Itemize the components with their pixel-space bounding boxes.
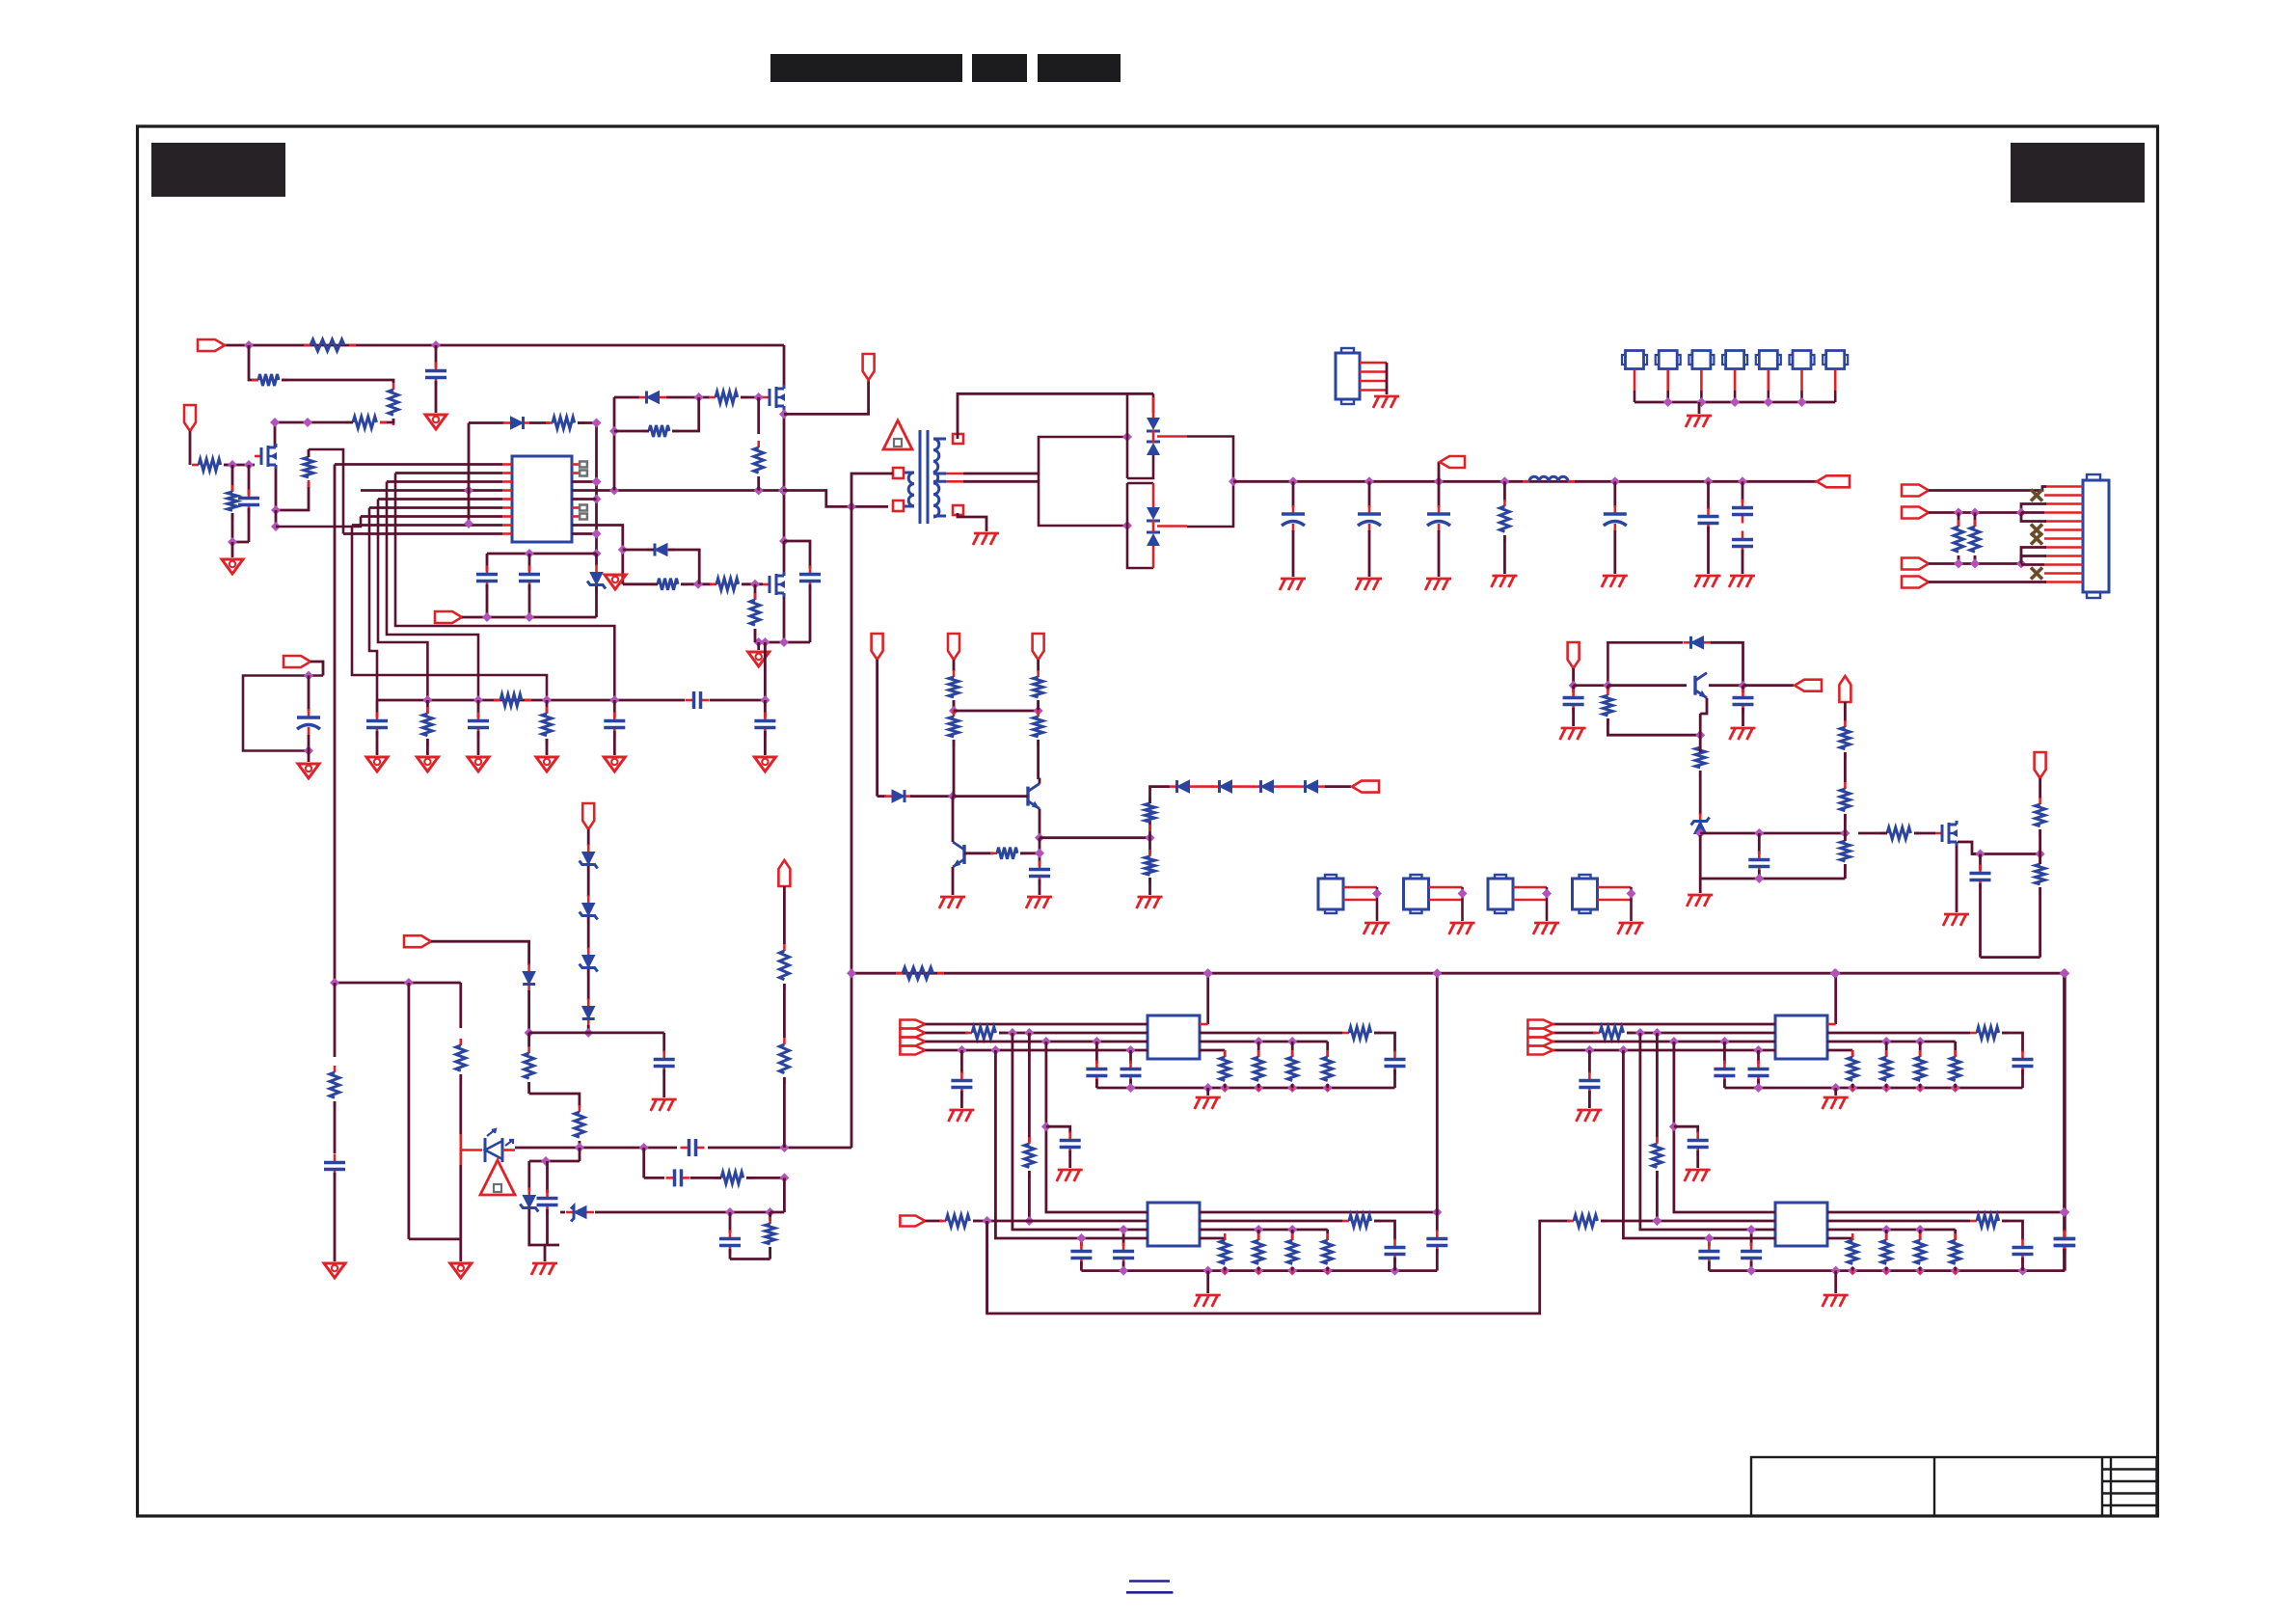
junction xyxy=(693,580,703,589)
chassis ground beads xyxy=(1686,416,1712,427)
junction xyxy=(1652,1216,1661,1226)
capacitor C305 xyxy=(1698,508,1719,532)
footer mark 2 xyxy=(1126,1591,1174,1594)
wire C331 drop xyxy=(662,1033,665,1052)
connector arrow D1 xyxy=(404,935,431,947)
wire cap row top xyxy=(487,553,597,555)
junction xyxy=(754,392,764,402)
wire to D301 xyxy=(878,795,886,798)
redacted title bar 3 xyxy=(1038,54,1121,82)
junction xyxy=(2016,508,2026,518)
wire R322-R323 xyxy=(1844,752,1847,782)
wire Q310 collector xyxy=(1709,684,1743,687)
capacitor C301 xyxy=(1282,505,1305,532)
warning triangle 2 xyxy=(480,1160,515,1195)
wire rp8 to gate chain xyxy=(572,526,623,584)
wire bridge upper red leg xyxy=(1152,397,1155,418)
wire Q310 out xyxy=(1700,698,1707,714)
wire A loop left xyxy=(986,1221,988,1313)
wire to ground xyxy=(231,542,234,557)
resistor R322 xyxy=(1840,720,1850,759)
junction xyxy=(1881,1037,1891,1046)
wire R326 to node xyxy=(2039,829,2041,854)
wire R308 below xyxy=(1148,838,1151,854)
wire lower row drop xyxy=(642,1148,645,1177)
wire rp3 xyxy=(572,480,597,483)
junction xyxy=(1739,681,1748,690)
junction xyxy=(228,537,237,547)
wire CB bank3 bot xyxy=(1919,1267,1922,1271)
wire C320 gnd xyxy=(1572,708,1575,726)
junction xyxy=(1951,1266,1960,1276)
wire C bank4 top xyxy=(1954,1042,1957,1057)
resistor R_Cc2 xyxy=(1881,1233,1891,1274)
junction xyxy=(464,519,473,528)
resistor R327 xyxy=(2036,857,2045,894)
wire bridge left box xyxy=(1039,437,1127,526)
wire C209 down xyxy=(308,735,311,751)
wire T1 primary top xyxy=(851,474,893,506)
wire A tap1 long xyxy=(995,1050,1148,1238)
wire fork pin5 xyxy=(2021,513,2046,522)
resistor R106 xyxy=(228,485,237,520)
connector arrow B1 xyxy=(872,634,883,660)
connector arrow C2 xyxy=(1839,676,1850,702)
junction xyxy=(957,1045,966,1055)
wire C out1 up xyxy=(1834,973,1837,1024)
wire A bank1 top xyxy=(1224,1050,1227,1057)
wire C tap3 xyxy=(1656,1033,1659,1142)
wire A bank4 bot xyxy=(1326,1084,1329,1088)
junction xyxy=(271,522,281,531)
wire C out3 xyxy=(1827,1041,1956,1043)
resistor R301 xyxy=(1499,500,1509,542)
wire D302-D303 xyxy=(1197,785,1213,788)
junction xyxy=(303,418,312,427)
wire D202 to R202 xyxy=(666,396,710,399)
wire R332 down xyxy=(527,1082,530,1094)
resistor R_Cb2 xyxy=(1881,1050,1891,1091)
wire arrow to node xyxy=(311,662,323,676)
wire R105 to Q102 gate xyxy=(224,464,255,467)
wire C bank3 top xyxy=(1919,1042,1922,1057)
wire C cap4 drop xyxy=(1757,1050,1760,1064)
resistor R103 xyxy=(389,383,398,425)
chassis ground C320 xyxy=(1560,728,1586,740)
no-connect U101 pin B xyxy=(580,471,587,476)
capacitor C_C5 xyxy=(2012,1051,2034,1075)
wire R208 gnd xyxy=(426,739,429,755)
wire CB gnd stub xyxy=(1834,1271,1837,1293)
wire C205 drop xyxy=(376,700,379,717)
resistor R_Cb4 xyxy=(1951,1050,1960,1091)
wire A bank2 bot xyxy=(1257,1084,1260,1088)
wire rp5 xyxy=(572,498,597,501)
wire AB bank2 top xyxy=(1257,1230,1260,1240)
junction xyxy=(1432,1207,1442,1217)
junction xyxy=(779,637,789,647)
capacitor C310 xyxy=(1029,861,1050,885)
junction xyxy=(1254,1266,1263,1276)
wire A vert below xyxy=(1436,1212,1439,1232)
wire AB out4 xyxy=(1200,1237,1225,1240)
junction xyxy=(1754,1045,1764,1055)
resistor R320 xyxy=(1603,689,1612,725)
resistor R307 xyxy=(1146,797,1155,831)
chassis ground U_C1 xyxy=(1823,1097,1849,1109)
wire C205 gnd xyxy=(376,731,379,755)
junction xyxy=(609,426,619,436)
wire C_A5 down xyxy=(1393,1069,1396,1088)
wire C322 down xyxy=(1758,870,1761,879)
chassis ground R308 xyxy=(1137,897,1163,908)
wire pair bottoms xyxy=(529,1209,559,1261)
chassis ground Q311 xyxy=(1943,914,1969,926)
wire fan pin5 route xyxy=(378,500,427,701)
wire U101 pin 3 xyxy=(502,480,512,483)
resistor R205 xyxy=(651,579,688,590)
junction xyxy=(766,1207,775,1217)
capacitor C102 xyxy=(238,490,259,514)
wire C330 gnd xyxy=(334,1173,337,1261)
wire A bank2 top xyxy=(1257,1042,1260,1057)
wire CB bank2 bot xyxy=(1885,1267,1888,1271)
capacitor C203 xyxy=(519,566,540,590)
junction xyxy=(1203,1083,1213,1093)
wire AB bottom rail xyxy=(1081,1269,1437,1272)
wire C306/C307 stack drop xyxy=(1742,481,1744,502)
wire rail gnd stub xyxy=(1699,879,1702,893)
junction xyxy=(990,1045,1000,1055)
wire to D201 xyxy=(469,421,504,424)
resistor R_C4 xyxy=(1567,1215,1607,1227)
junction xyxy=(1915,1083,1925,1093)
wire R327 down xyxy=(2039,887,2041,958)
wire J1 pin 9 red lead xyxy=(2044,555,2083,557)
wire C207 gnd xyxy=(613,731,616,755)
junction xyxy=(779,486,789,496)
no-connect X pin6 xyxy=(2031,525,2042,536)
junction xyxy=(1610,476,1620,486)
wire C_A7 down xyxy=(1122,1261,1125,1271)
wire C cap3 drop xyxy=(1723,1042,1726,1064)
capacitor C207 xyxy=(604,713,625,737)
resistor R321 xyxy=(1695,741,1705,777)
resistor R303 xyxy=(949,710,959,746)
junction xyxy=(1034,706,1043,716)
wire C203 down xyxy=(528,584,531,617)
capacitor C307 xyxy=(1732,531,1753,555)
wire ZD330 top xyxy=(527,1161,530,1191)
junction xyxy=(228,460,237,470)
capacitor C209 xyxy=(297,709,320,736)
capacitor C306 xyxy=(1732,500,1753,524)
resistor R210 xyxy=(542,707,552,745)
driver IC U_C1 xyxy=(1775,1015,1827,1059)
wire x637 vertical xyxy=(613,397,616,491)
redacted label top-right xyxy=(2011,143,2145,203)
resistor R325 xyxy=(1880,827,1921,839)
wire C out2 xyxy=(1827,1032,1970,1035)
wire CB bank1 bot xyxy=(1851,1267,1854,1271)
wire A L2 seg xyxy=(925,1032,968,1035)
wire C321 gnd xyxy=(1742,708,1744,726)
junction xyxy=(244,340,254,350)
wire arrow P4 to J1 pin12 xyxy=(1929,581,2046,583)
wire R206 to gate xyxy=(742,582,763,585)
footer mark xyxy=(1129,1580,1170,1583)
warning triangle 1 xyxy=(883,420,912,449)
junction xyxy=(1970,508,1980,518)
wire arrow stub up xyxy=(1438,462,1441,481)
wire A C2 branch xyxy=(1046,1126,1070,1133)
wire FB14 pins xyxy=(1598,886,1632,889)
junction xyxy=(1915,1225,1925,1234)
wire C tap1 long xyxy=(1623,1050,1775,1238)
junction xyxy=(1915,1266,1925,1276)
junction xyxy=(1323,1266,1333,1276)
wire Q102 source down xyxy=(275,469,278,510)
junction xyxy=(1603,681,1612,690)
junction xyxy=(1323,1083,1333,1093)
wire J1 pin 8 red lead xyxy=(2044,546,2083,549)
wire Q310 base xyxy=(1607,684,1687,687)
wire join xyxy=(232,541,249,544)
wire D204 output red xyxy=(1157,435,1187,438)
ground GND2 xyxy=(222,559,243,574)
wire B1 down xyxy=(876,660,878,797)
wire R207 below gate xyxy=(754,584,757,600)
junction xyxy=(1738,476,1747,486)
junction xyxy=(1122,432,1132,442)
junction xyxy=(754,637,764,647)
junction xyxy=(575,1143,584,1152)
transistor Q301 xyxy=(1028,784,1040,809)
wire R304 to tie xyxy=(1037,700,1040,711)
wire A out3 xyxy=(1200,1041,1328,1043)
wire R106 to gnd node xyxy=(231,513,234,542)
wire C_C7 down xyxy=(1750,1261,1753,1271)
connector arrow P2 xyxy=(1902,507,1929,519)
junction xyxy=(847,501,856,511)
chassis ground FB11 xyxy=(1364,923,1390,934)
ground GND4 xyxy=(605,575,626,589)
wire A L1 xyxy=(925,1023,1148,1026)
wire fork pin3 xyxy=(2021,504,2046,513)
wire C2 down xyxy=(1844,702,1847,721)
junction xyxy=(725,1207,735,1217)
resistor R326 xyxy=(2036,798,2045,836)
wire U101 right pin 7 NC xyxy=(572,515,580,518)
wire R401 down xyxy=(1958,555,1960,564)
junction xyxy=(583,1028,593,1038)
wire J1 pin 12 red lead xyxy=(2044,581,2083,583)
junction xyxy=(1220,1266,1229,1276)
ground GND9 xyxy=(604,757,625,771)
wire J1 pin 11 red lead xyxy=(2044,572,2083,575)
transistor Q202 MOSFET lower xyxy=(763,572,785,597)
wire CB out2 xyxy=(1827,1220,1970,1223)
ground GND5 xyxy=(366,757,388,771)
wire CB cap drop1 xyxy=(1708,1238,1711,1246)
junction xyxy=(1881,1225,1891,1234)
junction xyxy=(592,549,602,558)
wire C_A8 down xyxy=(1393,1258,1396,1271)
resistor R203 xyxy=(642,425,679,437)
wire CB out3 xyxy=(1827,1229,1956,1232)
capacitor C332 series xyxy=(681,1139,705,1156)
resistor R_Cb3 xyxy=(1915,1050,1925,1091)
junction xyxy=(592,477,602,487)
wire C334 top xyxy=(546,1161,549,1193)
junction xyxy=(592,495,602,504)
diode D201 xyxy=(503,417,531,429)
diode D303 xyxy=(1212,780,1240,793)
chassis ground C306 xyxy=(1729,576,1755,587)
wire C L2 seg xyxy=(1553,1032,1596,1035)
wire A out2 xyxy=(1200,1032,1342,1035)
transistor Q310 xyxy=(1695,673,1707,698)
chassis ground U_C2 xyxy=(1823,1295,1849,1307)
wire node to R327 xyxy=(2039,854,2041,865)
wire to Q102 drain xyxy=(275,422,353,447)
wire C bank1 bot xyxy=(1851,1084,1854,1088)
wire C302 gnd xyxy=(1368,530,1371,577)
wire x424 drop xyxy=(407,983,410,1239)
junction xyxy=(1970,559,1980,569)
chassis ground T1 xyxy=(973,533,999,545)
connector arrow VREG xyxy=(1795,680,1822,691)
connector arrow INA1 xyxy=(900,1020,925,1029)
junction xyxy=(1288,476,1298,486)
wire U101 pin 6 xyxy=(502,506,512,509)
diode D310 xyxy=(1684,636,1712,649)
ground GND1 xyxy=(425,415,446,429)
wire d down xyxy=(587,1025,590,1033)
junction xyxy=(592,529,602,539)
capacitor C_A2 xyxy=(1060,1132,1081,1156)
junction xyxy=(1618,1045,1628,1055)
wire C206 gnd xyxy=(477,731,480,755)
wire C bank1 top xyxy=(1851,1050,1854,1057)
junction xyxy=(1746,1225,1756,1234)
junction xyxy=(1754,1083,1764,1093)
wire R323 to node xyxy=(1844,814,1847,833)
wire C307 gnd xyxy=(1742,550,1744,574)
wire J1 pin 6 red lead xyxy=(2044,528,2083,531)
resistor R_rail xyxy=(896,967,944,979)
ferrite bead FB13 xyxy=(1488,875,1513,913)
wire D205 output red xyxy=(1157,525,1187,528)
wire to R102 xyxy=(249,345,258,380)
no-connect X pin7 xyxy=(2031,533,2042,545)
wire ZD down xyxy=(1699,835,1702,879)
capacitor C333 series xyxy=(666,1169,690,1186)
junction xyxy=(1203,1266,1213,1276)
wire to D203 xyxy=(623,549,654,552)
transistor Q302 xyxy=(953,842,964,867)
wire R210 drop xyxy=(546,700,549,714)
ferrite bead FB11 xyxy=(1318,875,1343,913)
wire R325 to Q311 xyxy=(1914,832,1935,835)
junction xyxy=(1696,397,1706,407)
wire C_A1 gnd xyxy=(960,1091,963,1108)
junction xyxy=(1041,1037,1051,1046)
wire R330 drop xyxy=(334,983,337,1057)
wire node to R325 xyxy=(1858,832,1887,835)
resistor R104 xyxy=(346,417,387,428)
wire comp rail right xyxy=(710,699,765,702)
wire FB12 pins xyxy=(1429,886,1463,889)
resistor R107 xyxy=(304,450,313,487)
wire C_C6 down xyxy=(1708,1261,1711,1271)
wire C5 drop xyxy=(528,554,531,571)
transformer T1 xyxy=(893,430,963,524)
wire ZD331 left stub xyxy=(560,1211,565,1214)
resistor R_A1 xyxy=(965,1027,1006,1039)
wire A tap cap1 xyxy=(960,1050,963,1073)
junction xyxy=(575,1143,584,1152)
chassis ground C302 xyxy=(1356,579,1382,590)
wire D203 down xyxy=(668,550,699,584)
resistor R_Cc4 xyxy=(1951,1233,1960,1274)
connector arrow C1 xyxy=(1568,642,1580,668)
wire AB out3 xyxy=(1200,1229,1328,1232)
wire A cap3 drop xyxy=(1095,1042,1098,1064)
connector VIN arrow xyxy=(198,339,225,351)
wire AB in2 seg2 xyxy=(973,1220,1148,1223)
wire R301 drop xyxy=(1503,481,1506,501)
wire R307 above xyxy=(1148,821,1151,838)
connector arrow P4 xyxy=(1902,577,1929,588)
junction xyxy=(760,695,770,705)
diode D305 xyxy=(1298,780,1326,793)
junction xyxy=(270,418,280,427)
junction xyxy=(983,1216,992,1226)
wire FB1 lead xyxy=(1634,369,1636,391)
wire to diode row xyxy=(1150,787,1171,803)
diode D203 xyxy=(647,544,675,556)
wire channel top rail xyxy=(851,972,2065,975)
junction xyxy=(779,409,789,419)
wire C bank4 bot xyxy=(1954,1084,1957,1088)
wire D320 down xyxy=(527,990,530,1033)
junction xyxy=(1254,1037,1263,1046)
wire arrow P1 to J1 pin1 xyxy=(1929,487,2046,491)
wire R204 to rail xyxy=(757,476,760,491)
connector arrow INC3 xyxy=(1527,1038,1553,1046)
capacitor C_C7 xyxy=(1741,1243,1762,1267)
wire C208 drop xyxy=(764,700,767,717)
zener diode ZD201 xyxy=(587,565,606,593)
wire CB bank3 top xyxy=(1919,1230,1922,1240)
wire R402 down xyxy=(1974,555,1977,564)
wire R202 to Q201 gate xyxy=(741,396,763,399)
wire C_C1 gnd xyxy=(1588,1091,1591,1108)
wire R331 to opto xyxy=(459,1074,462,1134)
junction xyxy=(1954,559,1963,569)
wire R336-R337 xyxy=(783,984,786,1038)
junction xyxy=(847,968,856,978)
junction xyxy=(1035,849,1044,858)
wire C L3 xyxy=(1553,1041,1775,1043)
wire C bank2 bot xyxy=(1885,1084,1888,1088)
junction xyxy=(1627,889,1636,899)
wire A bank3 top xyxy=(1291,1042,1294,1057)
wire Q302 emitter xyxy=(952,867,955,895)
connector arrow INAB xyxy=(900,1216,925,1227)
junction xyxy=(1458,889,1468,899)
